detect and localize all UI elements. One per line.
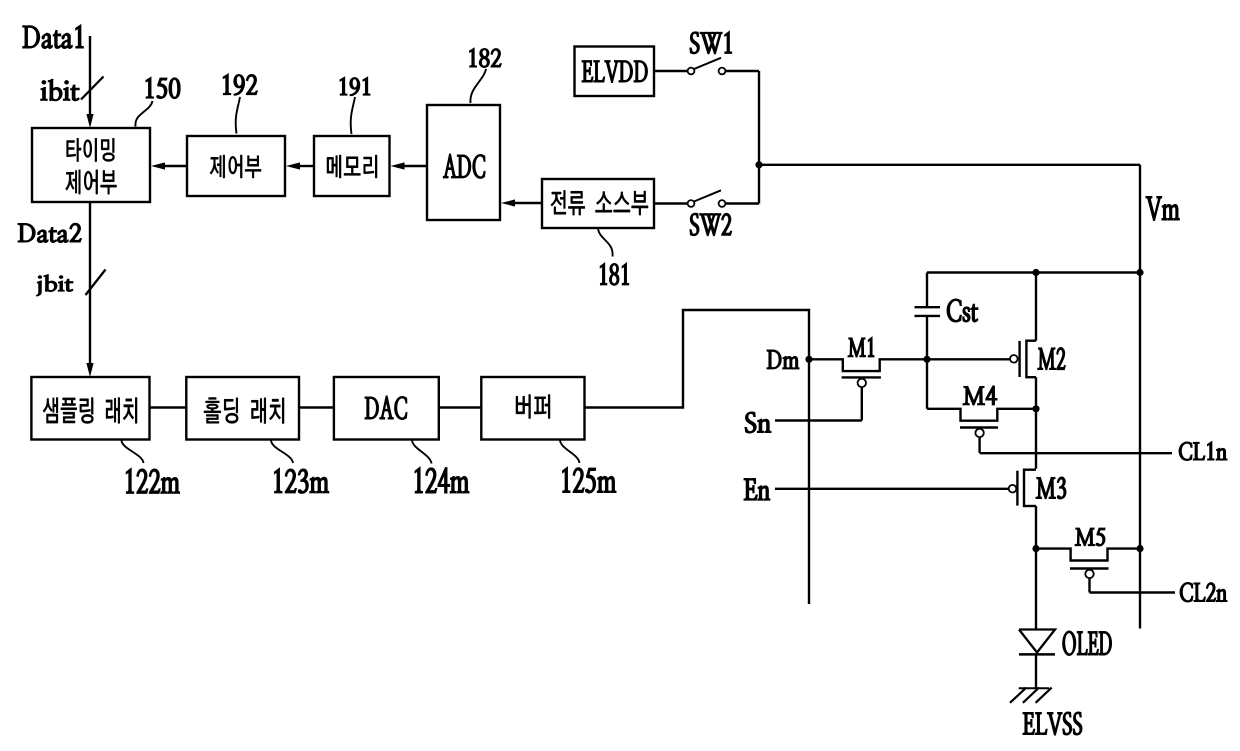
block 125m buffer box — [481, 377, 584, 440]
label 125m — [563, 467, 617, 493]
arrowhead into sampling latch — [86, 363, 93, 377]
label CL2n — [1180, 583, 1227, 603]
label 124m — [415, 467, 469, 493]
label CL1n — [1179, 442, 1227, 461]
block ELVDD box — [575, 47, 655, 97]
wire junction to M2 gate — [927, 358, 1010, 360]
arrowhead into timing controller — [86, 114, 93, 128]
wire DAC to buffer — [439, 406, 482, 408]
label jbit — [37, 275, 74, 296]
block 182 ADC box — [427, 105, 500, 220]
bus slash jbit — [86, 270, 106, 296]
wire sampling to holding — [150, 406, 187, 408]
transistor M4 — [927, 409, 1036, 453]
leader 124m — [412, 440, 432, 463]
node SW junction dot — [755, 161, 762, 168]
label Vm — [1146, 196, 1180, 220]
block 124m DAC box — [334, 377, 439, 440]
arrow memory to control — [286, 162, 314, 169]
wire CL2n — [1090, 591, 1176, 593]
block 191 memory box — [314, 136, 390, 196]
label M5 — [1075, 528, 1105, 546]
label M1 — [848, 337, 874, 357]
wire Sn — [775, 419, 862, 421]
label SW2 — [690, 213, 732, 236]
wire SW1 to node — [725, 70, 759, 72]
label M2 — [1038, 348, 1066, 370]
leader 125m — [560, 440, 580, 463]
wire vertical SW junction — [758, 71, 760, 204]
text 제어부 — [210, 155, 261, 178]
label 181 — [600, 263, 629, 285]
label M4 — [963, 386, 997, 405]
wire En — [775, 488, 1009, 490]
label OLED — [1063, 631, 1112, 656]
node dot rail-Vm — [1136, 269, 1143, 276]
block 192 control box — [187, 136, 285, 196]
node M3-M5 junction dot — [1032, 545, 1039, 552]
leader 181 — [598, 229, 613, 257]
text 샘플링 래치 — [43, 398, 137, 424]
block 181 current source box — [542, 179, 654, 228]
transistor M1 — [809, 359, 927, 420]
label 192 — [223, 74, 257, 96]
arrow ADC to memory — [391, 162, 428, 169]
block 150 timing controller box — [32, 128, 150, 202]
switch SW2 — [688, 190, 726, 207]
wire current source to SW2 — [654, 202, 688, 204]
wire M5 node to OLED — [1035, 549, 1037, 629]
label 122m — [126, 468, 179, 493]
leader 192 — [236, 97, 240, 134]
bus slash ibit — [81, 77, 104, 100]
node M1-Cst junction dot — [923, 356, 930, 363]
switch SW1 — [688, 58, 726, 75]
label M3 — [1036, 477, 1066, 499]
label 191 — [340, 77, 370, 96]
wire node to Vm corner — [759, 164, 1140, 166]
label En — [744, 479, 770, 501]
node M5-Vm junction dot — [1136, 545, 1143, 552]
label 123m — [274, 468, 328, 493]
text 버퍼 — [516, 395, 550, 419]
node Dm dot — [805, 356, 812, 363]
leader 150 — [135, 101, 152, 127]
wire holding to DAC — [299, 406, 334, 408]
transistor M2 — [1010, 273, 1036, 409]
label Data2 — [18, 223, 82, 242]
text 홀딩 래치 — [204, 398, 284, 424]
node M2-M4 junction dot — [1032, 405, 1039, 412]
leader 191 — [351, 97, 355, 134]
wire Cst node down to M4 — [926, 359, 928, 409]
wire Vm vertical — [1139, 165, 1141, 629]
label 182 — [470, 48, 502, 68]
wire SW2 to node — [725, 202, 759, 204]
node dot rail-M2 — [1032, 269, 1039, 276]
capacitor Cst — [915, 273, 941, 360]
text 타이밍 — [67, 138, 115, 161]
wire CL1n — [980, 452, 1172, 454]
label Cst — [947, 299, 978, 322]
text ELVDD — [582, 61, 648, 83]
text 제어부 (timing) — [66, 170, 117, 194]
wire Data1 vertical into timing controller — [89, 36, 91, 115]
diode OLED — [1019, 630, 1055, 688]
wire Cst top rail — [927, 271, 1140, 273]
text 메모리 — [327, 155, 377, 178]
wire Data2 vertical — [89, 202, 91, 364]
label Dm — [767, 350, 799, 369]
label Sn — [745, 412, 771, 433]
text 전류 소스부 — [551, 190, 648, 215]
block 122m sampling latch box — [31, 377, 149, 440]
transistor M5 — [1036, 549, 1140, 593]
wire buffer to Dm node — [585, 310, 810, 604]
label Data1 — [23, 25, 84, 49]
leader 122m — [122, 441, 144, 464]
text ADC — [443, 154, 485, 178]
transistor M3 — [1009, 409, 1036, 549]
label ELVSS — [1023, 712, 1082, 735]
text DAC — [365, 396, 407, 420]
block 123m holding latch box — [186, 377, 299, 440]
arrow current source to ADC — [501, 199, 542, 206]
label 150 — [146, 77, 180, 99]
leader 182 — [470, 69, 486, 103]
leader 123m — [271, 441, 293, 464]
ground ELVSS symbol — [1010, 688, 1052, 703]
label SW1 — [690, 31, 732, 54]
wire ELVDD to SW1 — [654, 70, 688, 72]
arrow control to timing — [151, 162, 187, 169]
label ibit — [41, 79, 80, 101]
